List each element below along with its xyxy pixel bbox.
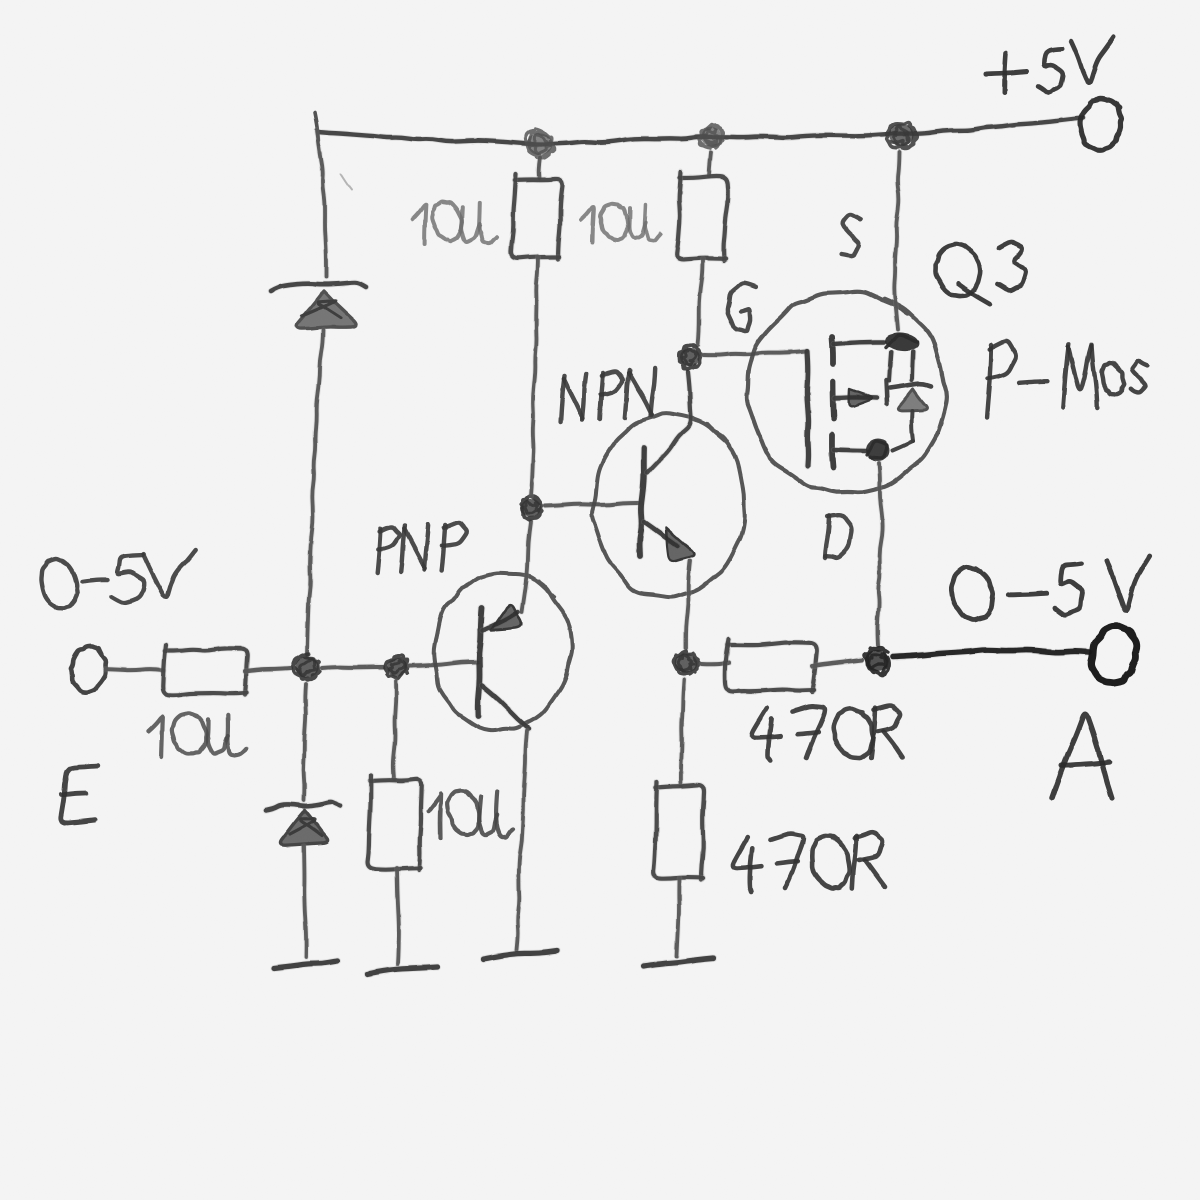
label D bbox=[825, 515, 851, 558]
label R4 10K bbox=[581, 204, 661, 242]
node rail junction 3 bbox=[886, 122, 917, 148]
wire left branch lower bbox=[307, 330, 323, 655]
wire output bbox=[893, 650, 1089, 657]
label Q1 PNP bbox=[378, 522, 467, 573]
transistor Q2 base bar bbox=[640, 448, 644, 556]
wire Q1 collector to ground bbox=[517, 731, 527, 950]
transistor Q3 drain lead bbox=[834, 450, 866, 451]
label G bbox=[728, 283, 756, 331]
ground 2 bbox=[367, 967, 437, 974]
resistor R3 bbox=[511, 174, 562, 259]
wire R1 to node E1 bbox=[245, 668, 291, 671]
label Q3 bbox=[935, 242, 1026, 304]
wire left branch upper bbox=[317, 130, 326, 277]
diode D2 cathode bar bbox=[266, 802, 341, 810]
wire node M to R6 bbox=[681, 679, 684, 786]
wire E2 to R2 bbox=[393, 681, 396, 779]
label Q2 NPN bbox=[561, 368, 656, 422]
transistor Q1 body bbox=[434, 573, 572, 730]
transistor Q1 collector bbox=[482, 686, 529, 729]
transistor Q3 gate bar bbox=[807, 351, 809, 466]
transistor Q3 source lead bbox=[834, 342, 884, 344]
diode Q3 body diode bbox=[890, 352, 931, 450]
wire D2 to ground bbox=[304, 846, 306, 957]
wire R3 to node B bbox=[531, 257, 538, 496]
transistor Q3 body lead bbox=[835, 352, 891, 406]
wire +5V rail bbox=[318, 118, 1083, 145]
wire Q2 emitter to node M bbox=[686, 561, 690, 648]
wire R6 to ground bbox=[677, 878, 679, 956]
node G bbox=[678, 345, 703, 370]
ground 1 bbox=[274, 961, 337, 968]
wire Q1 emitter to node B bbox=[522, 522, 531, 612]
wire Q3 source to rail bbox=[894, 152, 899, 330]
terminal A bbox=[1091, 626, 1137, 683]
wire E2 to PNP base bbox=[410, 662, 477, 666]
wire node G to Q3 gate bbox=[704, 351, 806, 355]
wire rail to R3 bbox=[539, 158, 540, 178]
transistor Q2 body bbox=[592, 413, 745, 597]
diode D1 cathode bar bbox=[271, 282, 366, 291]
resistor R6 bbox=[654, 782, 704, 880]
node M bbox=[674, 651, 699, 675]
node A1 bbox=[864, 648, 889, 676]
net label E bbox=[61, 766, 98, 823]
wire node B to Q2 base bbox=[545, 503, 638, 506]
diode D2 bbox=[280, 810, 328, 845]
resistor R4 bbox=[677, 172, 729, 261]
ground 3 bbox=[483, 951, 557, 959]
ground 4 bbox=[644, 958, 713, 966]
wire E1 to E2 bbox=[322, 667, 383, 668]
wire input bbox=[105, 669, 164, 670]
label R6 470R bbox=[733, 832, 885, 892]
transistor Q2 emitter bbox=[644, 522, 694, 561]
net label 0-5V output bbox=[951, 556, 1149, 620]
diode D1 bbox=[296, 291, 356, 329]
transistor Q3 body bbox=[747, 291, 947, 492]
wire rail to R4 bbox=[709, 152, 711, 176]
wire E1 to D2 bbox=[304, 684, 306, 800]
net label 0-5V input bbox=[41, 550, 195, 608]
label P-Mos bbox=[987, 341, 1148, 417]
node E1 bbox=[292, 654, 320, 680]
wire R5 to node A1 bbox=[812, 660, 862, 666]
label R3 10K bbox=[412, 202, 496, 244]
transistor Q1 base bar bbox=[478, 608, 482, 716]
terminal E input bbox=[71, 646, 106, 693]
wire R2 to ground bbox=[397, 868, 399, 964]
resistor R2 bbox=[368, 775, 422, 870]
label S bbox=[842, 214, 861, 256]
resistor R5 bbox=[725, 639, 816, 692]
node E2 bbox=[385, 655, 409, 679]
transistor Q1 emitter bbox=[483, 605, 521, 630]
transistor Q2 collector bbox=[647, 372, 691, 473]
node junction top-left corner bbox=[315, 113, 319, 145]
wire node M to R5 bbox=[701, 663, 729, 664]
node Q3 drain bbox=[866, 439, 890, 461]
resistor R1 bbox=[163, 645, 247, 695]
node B bbox=[520, 496, 542, 521]
wire R4 to node G bbox=[698, 259, 703, 345]
node Q3 source bbox=[884, 331, 920, 353]
transistor Q3 channel bbox=[832, 337, 834, 467]
label R1 10K bbox=[148, 713, 246, 757]
wire Q3 drain to node A1 bbox=[877, 463, 882, 646]
node rail junction 2 bbox=[699, 125, 725, 149]
node rail junction 1 bbox=[526, 129, 554, 159]
label R5 470R bbox=[752, 706, 902, 761]
net label A bbox=[1052, 714, 1112, 798]
net label +5V bbox=[986, 37, 1114, 93]
wire stray mark bbox=[341, 174, 352, 190]
label R2 10K bbox=[429, 791, 512, 838]
terminal +5V bbox=[1080, 98, 1121, 150]
